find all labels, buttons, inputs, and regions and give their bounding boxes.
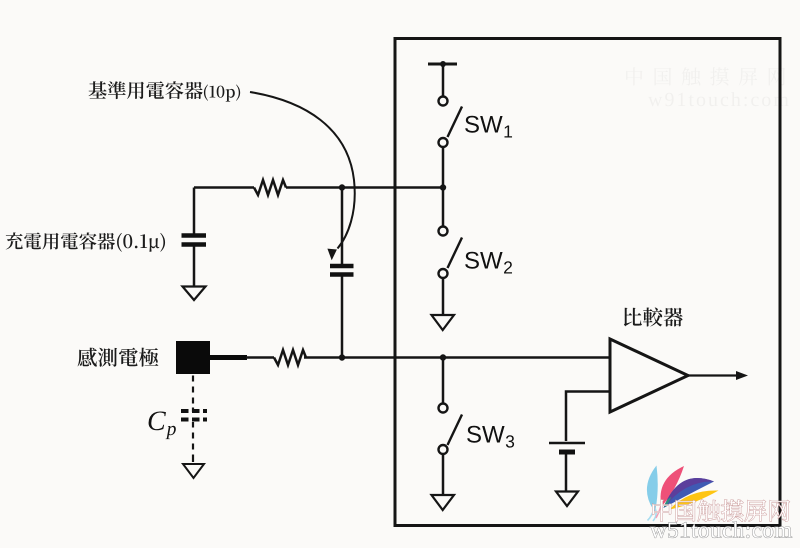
IC block box (395, 39, 780, 526)
output wire with arrow (688, 374, 738, 376)
node N4 junction dot (440, 184, 446, 190)
power terminal T1 (428, 63, 457, 66)
watermark text url (650, 522, 792, 538)
label: reference capacitor (10p) (89, 81, 241, 101)
switch SW1 (439, 97, 463, 148)
ground G3 (432, 315, 455, 330)
label Cp (149, 411, 176, 439)
node N1 junction dot (339, 184, 345, 190)
ground G2 (dashed branch) (183, 464, 204, 478)
reference wire to comparator inverting input (566, 392, 640, 442)
battery B1 (549, 442, 585, 445)
switch SW3 (442, 358, 445, 404)
label: comparator (624, 307, 683, 326)
sensing electrode pad (176, 341, 210, 374)
label: sensing electrode (78, 348, 159, 367)
switch SW2 (442, 188, 445, 227)
ground G1 (183, 287, 206, 301)
logo feather royalblue underside (664, 478, 715, 508)
label SW2 (465, 252, 512, 274)
label: charging capacitor (0.1u) (6, 232, 165, 251)
logo feather teal accent front (664, 497, 672, 507)
label SW3 (467, 426, 514, 448)
capacitor C1 branch (193, 188, 196, 234)
capacitor C2 (10p) branch (341, 188, 344, 265)
parasitic capacitor Cp (dashed) (192, 376, 194, 413)
logo feather lightblue (647, 466, 658, 513)
logo feather pink (661, 466, 684, 507)
leader arrow to C2 (250, 92, 355, 260)
wire (442, 147, 445, 188)
wire W1 (top horizontal) (194, 186, 443, 189)
comparator U1 triangle (610, 339, 688, 412)
node N3 junction dot (440, 354, 446, 360)
label SW1 (465, 116, 512, 138)
node N2 junction dot (339, 354, 345, 360)
wire W2 (sensor horizontal) (209, 355, 247, 360)
resistor R2 (274, 350, 306, 365)
logo feather quill strands (648, 506, 657, 521)
logo feather purple topside (664, 478, 715, 508)
resistor R1 (254, 180, 286, 195)
ground G4 (432, 495, 455, 510)
watermark text CN (652, 500, 789, 522)
ground G5 (556, 492, 578, 507)
logo feather yellow (670, 490, 719, 509)
faint watermark top right (626, 67, 788, 106)
